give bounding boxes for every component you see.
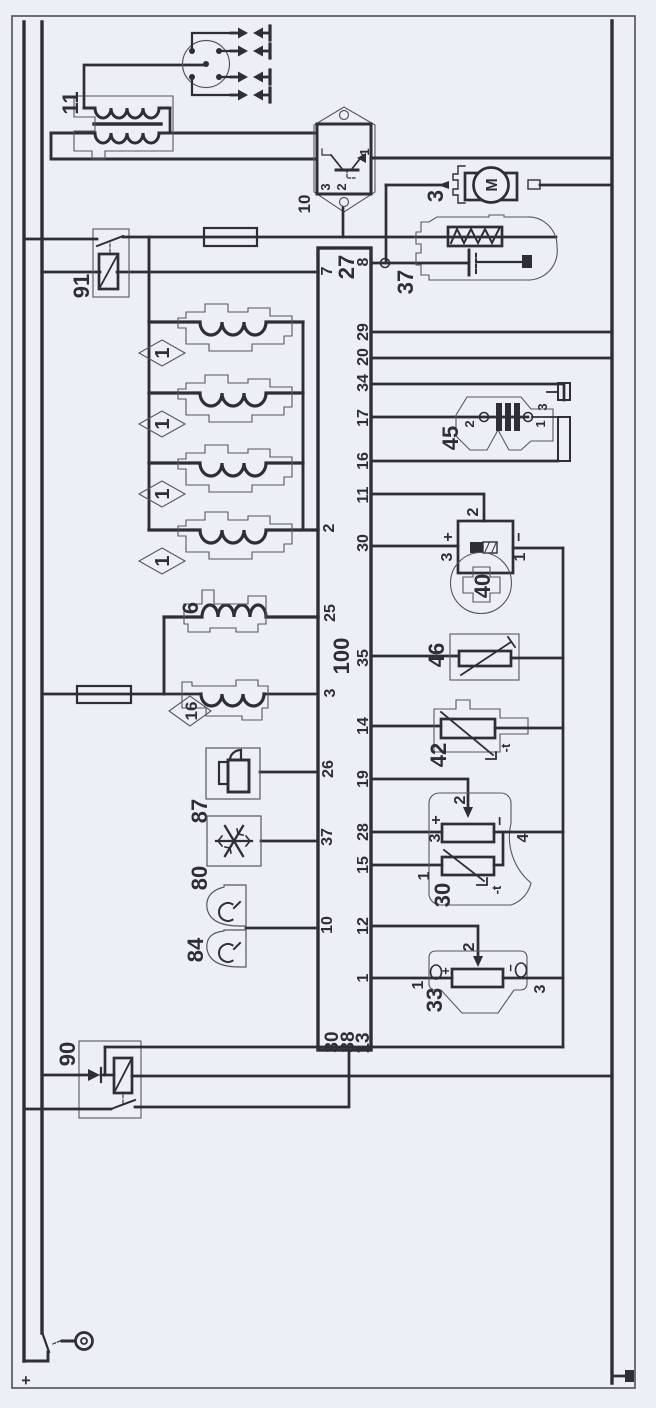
svg-text:3: 3 <box>427 833 444 842</box>
svg-text:25: 25 <box>322 604 339 622</box>
capacitor in 37 <box>469 250 532 275</box>
wire pin 37 to A/C signal 80 <box>261 840 318 843</box>
svg-text:−: − <box>511 532 528 541</box>
svg-text:−: − <box>492 816 509 825</box>
svg-text:17: 17 <box>355 409 372 427</box>
svg-text:6: 6 <box>178 602 203 614</box>
svg-text:13: 13 <box>353 1032 374 1053</box>
svg-text:3: 3 <box>439 552 456 561</box>
sender 84 (two domes) <box>207 885 246 967</box>
wire branch bus to coil 6 <box>163 617 166 694</box>
wire pin 16 to knock sensor shield <box>371 460 558 463</box>
svg-text:14: 14 <box>355 717 372 735</box>
wire long line to pin 13 / sensor ground <box>105 1046 563 1049</box>
wire pin 1 to sensor 33 <box>371 977 452 980</box>
svg-text:30: 30 <box>355 534 372 552</box>
wire pin 7 feed from rail 15 through relay coil <box>42 271 318 274</box>
svg-text:3: 3 <box>535 403 550 410</box>
wire injector feed bus <box>148 237 151 530</box>
wire coil 11 primary U-loop to module 10 <box>51 133 317 159</box>
svg-text:80: 80 <box>187 866 212 890</box>
svg-text:28: 28 <box>355 823 372 841</box>
wire rail 15 (ignition switched) <box>40 22 43 1333</box>
svg-text:1: 1 <box>533 420 548 427</box>
svg-text:+: + <box>428 815 445 824</box>
relay 90 coil <box>114 1058 132 1093</box>
spark plug gaps (4x arrow pairs) <box>231 26 270 102</box>
svg-text:30: 30 <box>430 883 455 907</box>
wire injector return bus to pin 2 <box>302 322 305 530</box>
svg-text:2: 2 <box>321 523 338 532</box>
svg-text:42: 42 <box>426 743 451 767</box>
svg-text:1: 1 <box>152 347 174 358</box>
svg-text:1: 1 <box>152 418 174 429</box>
wire pin 15 to airflow temp sensor <box>371 864 442 867</box>
svg-text:40: 40 <box>470 574 495 598</box>
svg-text:11: 11 <box>355 486 372 503</box>
canister purge valve 87 <box>206 748 260 799</box>
wire rail 30 (battery +) <box>22 22 25 1361</box>
wire distributor to spark gap 2 <box>219 50 233 52</box>
svg-text:1: 1 <box>152 488 174 499</box>
fuse F2 <box>77 686 131 703</box>
wire relay 90 coil to ground bus <box>132 1075 612 1078</box>
module 10 transistor <box>322 149 366 178</box>
svg-text:100: 100 <box>329 638 354 675</box>
svg-text:87: 87 <box>187 799 212 823</box>
temp sensor 33 <box>429 951 527 1013</box>
fuse F1 <box>204 228 257 246</box>
wire ground bus (bottom) <box>610 21 613 1383</box>
knock sensor terminal 3 lead <box>547 391 558 393</box>
ignition switch arm <box>42 1332 49 1352</box>
ignition coil 11 core <box>94 122 161 125</box>
svg-text:45: 45 <box>438 426 463 450</box>
relay 90 outline <box>79 1041 141 1118</box>
wire pot 46 to sensor ground <box>511 657 563 660</box>
relay 90 dashed link <box>122 1092 124 1103</box>
wire module 10 tab to fuse line <box>342 208 345 237</box>
wire relay 91 out / fuse line down to injection system <box>123 236 556 239</box>
svg-text:2: 2 <box>461 942 478 951</box>
svg-text:3: 3 <box>322 688 339 697</box>
idle stabilizer 37 outline <box>416 215 557 280</box>
svg-text:10: 10 <box>295 195 314 214</box>
knock sensor clip boxes <box>558 383 570 461</box>
wire coil 11 HT to distributor <box>84 65 203 108</box>
wire junction diode-coil to sensor-ground line <box>104 1047 107 1075</box>
injector 2 <box>139 375 303 437</box>
wire sensor 42 to sensor ground <box>495 727 563 730</box>
svg-text:M: M <box>484 178 501 191</box>
wire pump to ground bus <box>540 184 612 187</box>
component 6 connector outline <box>184 590 266 632</box>
wire distributor to spark gap 1 <box>192 33 233 51</box>
svg-text:37: 37 <box>319 828 336 846</box>
wire pin 17 through knock sensor terminals <box>371 416 528 419</box>
component 16 connector outline <box>182 680 268 720</box>
relay 90 switch arm <box>111 1100 135 1109</box>
ignition coil 11 secondary winding <box>84 108 170 118</box>
svg-text:15: 15 <box>355 856 372 874</box>
wire pin 28 to airflow pot + <box>371 831 442 834</box>
wire pin 34 to knock sensor terminal 3 <box>371 384 564 400</box>
airflow meter 30 temp sensor <box>442 850 494 885</box>
wire distributor to spark gap 4 <box>192 77 233 95</box>
hall sender 40 <box>451 521 514 614</box>
svg-text:4: 4 <box>515 833 532 842</box>
ignition output stage 10 (tag outline) <box>314 107 375 212</box>
distributor 8 (circle) <box>183 41 230 88</box>
svg-text:19: 19 <box>355 770 372 788</box>
svg-text:29: 29 <box>355 323 372 341</box>
svg-text:3: 3 <box>318 183 333 190</box>
wire pin 26 to valve 87 <box>260 771 318 774</box>
injector 1 (cyl 1) <box>139 304 303 366</box>
ground symbol (bottom bus left end) <box>612 1370 634 1382</box>
svg-text:20: 20 <box>355 348 372 366</box>
svg-text:7: 7 <box>319 266 336 275</box>
svg-text:1: 1 <box>355 973 372 982</box>
wire pin 20 to ground bus <box>371 357 612 360</box>
relay 91 switch feed from rail 30 <box>24 238 97 241</box>
relay 91 coil <box>99 254 118 289</box>
svg-text:1: 1 <box>416 871 433 880</box>
svg-text:16: 16 <box>182 702 201 721</box>
svg-text:+: + <box>438 967 453 975</box>
module 10 body <box>317 124 371 194</box>
svg-text:+: + <box>440 532 457 541</box>
wire pin 12 to temp sensor 33 wiper <box>371 926 478 957</box>
relay 91 switch-coil dashed link <box>109 241 111 252</box>
ECU control unit 100 <box>318 248 371 1050</box>
wire pin 10 to sender 84 <box>246 927 318 930</box>
svg-text:1: 1 <box>357 148 372 155</box>
wire pin 8 to capacitor in 37 <box>371 262 469 265</box>
svg-text:2: 2 <box>452 795 469 804</box>
wire relay 90 switch to ECU pins 30/38 <box>135 1050 349 1107</box>
wire pin 30b to sender 40 + <box>371 545 458 548</box>
airflow meter 30 potentiometer <box>442 824 494 842</box>
wire airflow sensor commons <box>494 832 563 865</box>
relay 91 outline <box>93 229 129 297</box>
potentiometer 46 <box>450 634 519 680</box>
knock sensor 45 piezo element <box>496 403 520 431</box>
svg-text:-t: -t <box>489 885 504 894</box>
sensor 33 arrow <box>473 956 483 967</box>
wire coil 11 primary to module 10 pin <box>170 132 317 135</box>
wire coil 11 common terminal <box>169 108 172 133</box>
svg-text:91: 91 <box>69 274 94 298</box>
wire node to fuel pump feed <box>385 185 388 263</box>
svg-text:2: 2 <box>465 507 482 516</box>
wire sender 40 - to sensor ground <box>513 547 563 550</box>
wire relay 90 coil feed from rail 15 <box>42 1074 88 1077</box>
coolant temp sensor 42 <box>434 700 528 759</box>
ignition key symbol <box>53 1333 93 1350</box>
carbon canister valve 6 winding and wire to pin 25 <box>164 605 318 617</box>
relay 90 diode <box>88 1068 114 1082</box>
wire module 10 output to ground bus <box>371 157 612 160</box>
wire relay 90 switch feed from rail 30 <box>24 1108 111 1111</box>
wire pin 35 to throttle pot 46 <box>371 655 459 658</box>
svg-text:37: 37 <box>393 270 418 294</box>
svg-text:10: 10 <box>319 916 336 934</box>
wire battery drop to switch <box>24 1352 48 1361</box>
wire pin 19 to airflow pot wiper <box>371 779 468 808</box>
A/C switch 80 (snowflake) <box>207 816 261 866</box>
wire fuel pump feed <box>386 184 440 187</box>
svg-text:8: 8 <box>355 257 372 266</box>
svg-text:12: 12 <box>355 917 372 935</box>
svg-text:16: 16 <box>355 452 372 470</box>
injector 3 <box>139 445 303 507</box>
knock sensor shield lead <box>532 416 558 418</box>
airflow meter 30 outline <box>429 793 531 905</box>
airflow wiper arrow <box>463 807 473 818</box>
wire pin 29 to ground bus <box>371 331 612 334</box>
node terminal circle on pin 8 wire <box>381 259 390 268</box>
svg-text:−: − <box>503 964 518 972</box>
injector 4 and wire to ECU pin 2 <box>139 512 318 574</box>
svg-text:3: 3 <box>532 984 549 993</box>
svg-text:+: + <box>18 1376 35 1385</box>
svg-text:1: 1 <box>512 552 529 561</box>
svg-text:46: 46 <box>424 643 449 667</box>
svg-text:2: 2 <box>334 183 349 190</box>
svg-text:-t: -t <box>498 743 513 752</box>
svg-text:34: 34 <box>355 374 372 392</box>
wire pin 11 to hall sender 40 <box>371 494 484 521</box>
wire sensor ground line to pin 13 <box>562 548 565 1047</box>
module 10 mounting holes <box>340 111 349 207</box>
svg-text:90: 90 <box>55 1042 80 1066</box>
wire sensor 33 to sensor ground <box>503 977 563 980</box>
wire distributor to spark gap 3 <box>219 76 233 78</box>
svg-text:35: 35 <box>355 649 372 667</box>
svg-text:26: 26 <box>320 760 337 778</box>
relay 91 switch arm <box>97 236 123 246</box>
svg-text:11: 11 <box>58 91 83 114</box>
wire pin 14 to coolant sensor 42 <box>371 725 441 728</box>
wire fuse 2 line from rail 15 to pin 3 (idle actuator 16 inline) <box>42 693 318 696</box>
fuel pump 3 <box>438 166 540 203</box>
resistor in 37 <box>448 227 502 246</box>
svg-text:2: 2 <box>462 420 477 427</box>
svg-text:33: 33 <box>422 988 447 1012</box>
svg-text:84: 84 <box>183 937 208 962</box>
knock sensor terminal circles <box>480 413 533 422</box>
svg-text:3: 3 <box>423 190 448 202</box>
label 16 diamond <box>169 696 211 726</box>
ignition coil 11 primary winding <box>51 133 170 143</box>
coil 11 connector outline <box>74 96 173 159</box>
svg-text:1: 1 <box>152 555 174 566</box>
knock sensor 45 outline <box>456 397 553 450</box>
